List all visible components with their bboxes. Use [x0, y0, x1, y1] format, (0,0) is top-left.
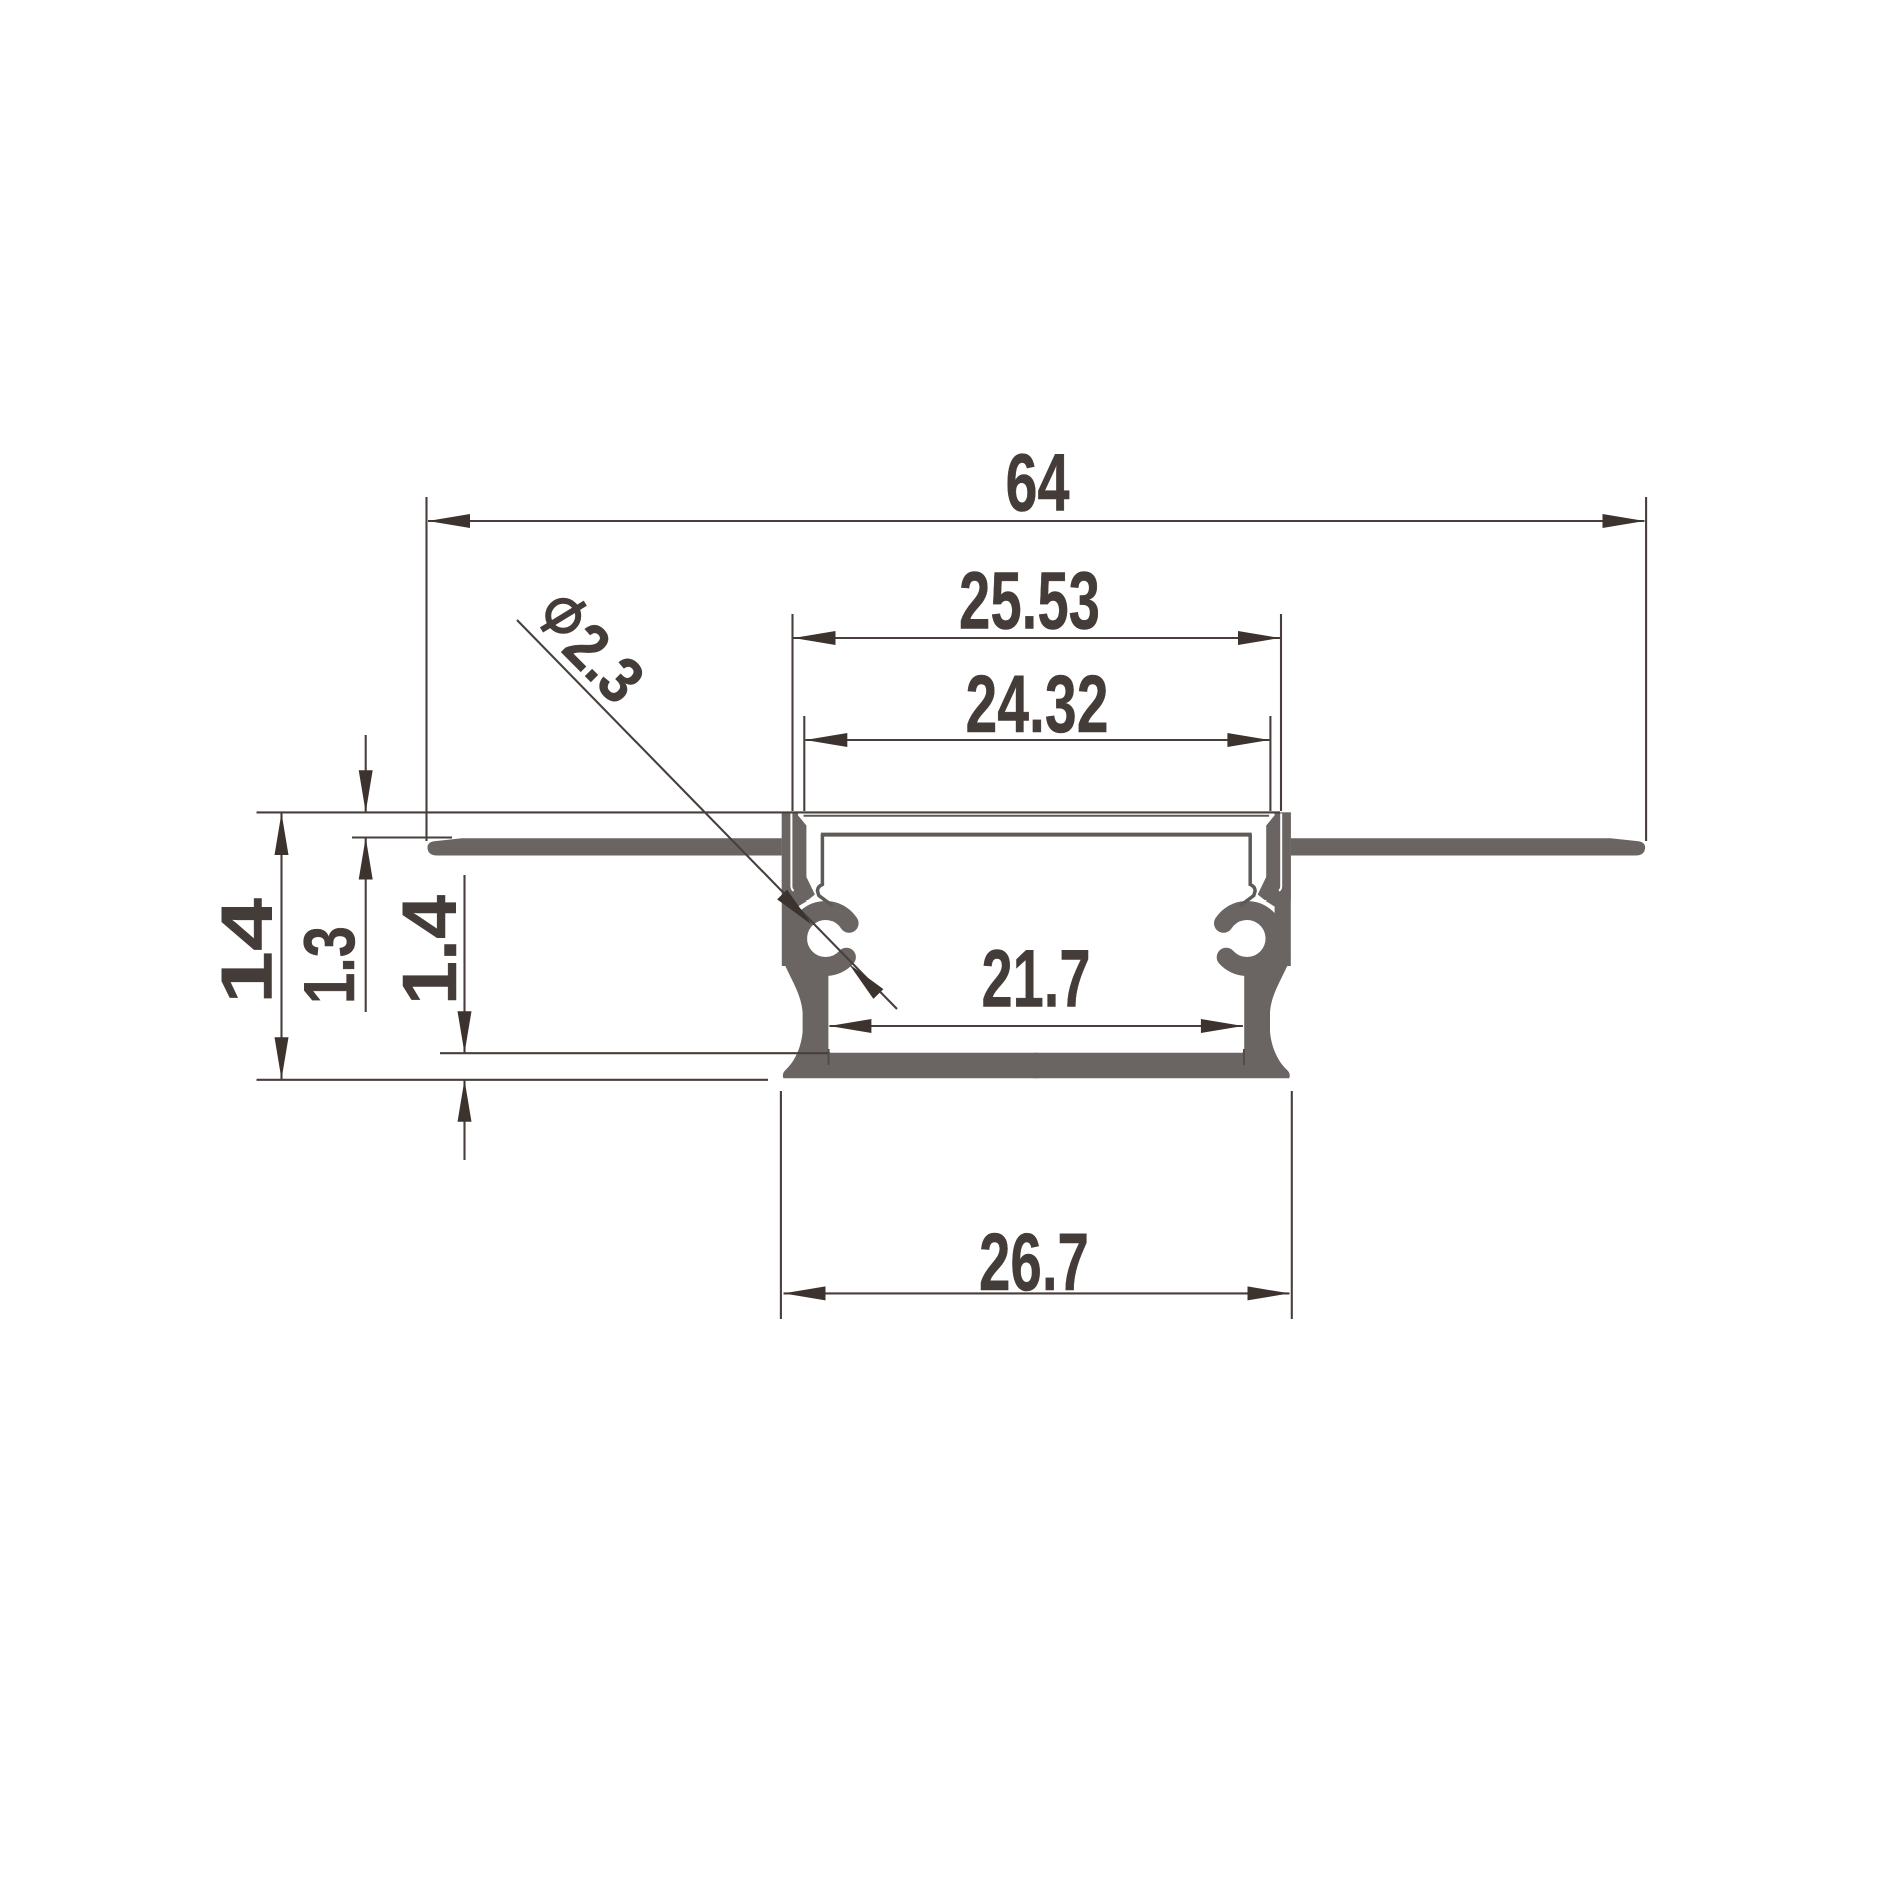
- boss root filler (left): [789, 889, 807, 912]
- diffuser leg (right): [1240, 834, 1255, 905]
- profile side wall (left): [782, 812, 798, 966]
- dim dia2.3: leader line: [517, 620, 897, 1009]
- svg-text:25.53: 25.53: [959, 556, 1100, 647]
- dim 24.32: extension lines: [803, 716, 805, 811]
- svg-text:21.7: 21.7: [982, 934, 1091, 1025]
- dim 26.7: extension lines: [780, 1091, 782, 1319]
- screw boss (left): [798, 910, 850, 966]
- dim 1.3: dimension line segments: [365, 735, 367, 812]
- dim 21.7: dimension line: [829, 1025, 1243, 1027]
- inner wall overshoot tick (left): [828, 1049, 830, 1065]
- svg-text:64: 64: [1006, 438, 1070, 529]
- diffuser underside: [821, 833, 1252, 837]
- svg-text:14: 14: [208, 898, 288, 1004]
- dim 26.7: dimension line: [784, 1292, 1290, 1294]
- flange top reference tick: [352, 836, 452, 838]
- lip gap sliver (right): [1279, 814, 1281, 891]
- dim 64: dimension line: [428, 520, 1645, 522]
- dim 24.32: dimension line: [805, 739, 1269, 741]
- profile base/skirt (left): [782, 958, 1039, 1078]
- lip gap sliver (left): [791, 814, 793, 891]
- diffuser leg (left): [818, 834, 833, 905]
- svg-text:1.3: 1.3: [290, 926, 370, 1004]
- boss root filler (right): [1266, 889, 1284, 912]
- profile base/skirt (right): [1034, 958, 1291, 1078]
- profile side wall (right): [1275, 812, 1291, 966]
- dim 14: dimension line: [280, 812, 282, 1079]
- top reference line (lip top plane): [257, 811, 1281, 813]
- plaster flange (right): [1291, 838, 1645, 855]
- bottom reference line: [257, 1079, 769, 1081]
- dim 25.53: dimension line: [794, 637, 1281, 639]
- dim dia2.3: diameter symbol: [542, 601, 586, 631]
- floor top reference tick: [440, 1052, 828, 1054]
- dim 25.53: extension lines: [791, 614, 793, 811]
- dim 1.4: dimension line segments: [463, 875, 465, 1053]
- profile lip (right): [1258, 812, 1291, 900]
- plaster flange (left): [428, 838, 782, 855]
- svg-text:24.32: 24.32: [966, 659, 1109, 750]
- diffuser top surface: [804, 815, 1270, 817]
- inner wall overshoot tick (right): [1243, 1049, 1245, 1065]
- dim 64: extension lines: [425, 497, 427, 841]
- svg-text:1.4: 1.4: [387, 895, 473, 1005]
- svg-text:26.7: 26.7: [979, 1217, 1089, 1308]
- screw boss (right): [1224, 910, 1276, 966]
- profile lip (left): [782, 812, 815, 900]
